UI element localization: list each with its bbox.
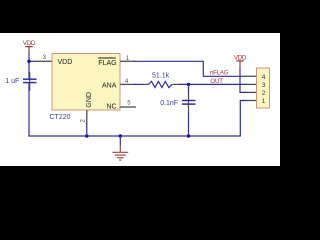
- capacitor C1 1uF plates: [23, 78, 37, 80]
- svg-text:NC: NC: [107, 104, 117, 111]
- resistor R1 leads: [144, 83, 149, 85]
- svg-text:VDD: VDD: [23, 40, 36, 47]
- power symbol VDD right: [236, 61, 243, 69]
- svg-text:5: 5: [127, 101, 131, 107]
- pin 5 stub NC: [120, 106, 136, 108]
- svg-text:4: 4: [262, 74, 266, 81]
- svg-text:3: 3: [43, 55, 47, 61]
- IC U1 body: [52, 54, 120, 111]
- svg-text:1 uF: 1 uF: [5, 78, 19, 85]
- wire junction to IC pin3: [28, 60, 38, 62]
- connector J1 pin stubs: [247, 76, 257, 100]
- svg-text:VDD: VDD: [234, 55, 247, 62]
- wire VDD rail left vertical: [28, 52, 30, 79]
- node junction ground symbol: [119, 134, 122, 137]
- wire pin2 to bus: [86, 123, 88, 136]
- wire bus to connector pin1: [240, 101, 247, 137]
- svg-text:1: 1: [262, 98, 266, 105]
- wire resistor to connector (OUT net): [179, 83, 248, 85]
- pin 4 stub ANA: [120, 83, 136, 85]
- node junction R1/C2: [187, 83, 190, 86]
- capacitor C1 leads gray: [29, 72, 31, 91]
- svg-text:FLAG: FLAG: [98, 60, 116, 67]
- node junction VDD/C1: [27, 60, 30, 63]
- wire FLAG to connector (nFLAG net): [134, 61, 248, 76]
- pin 2 stub GND: [86, 110, 88, 124]
- svg-text:0.1nF: 0.1nF: [160, 100, 178, 107]
- svg-text:51.1k: 51.1k: [152, 73, 170, 80]
- svg-text:GND: GND: [86, 92, 93, 108]
- wire ground bus: [28, 135, 241, 137]
- connector J1 body: [257, 68, 270, 108]
- node junction C2 bottom: [187, 134, 190, 137]
- wire cap bottom to ground bus: [28, 83, 30, 136]
- power symbol VDD left: [25, 47, 32, 53]
- svg-text:OUT: OUT: [210, 78, 223, 85]
- pin 3 stub: [37, 60, 53, 62]
- svg-text:2: 2: [262, 90, 266, 97]
- svg-text:ANA: ANA: [102, 83, 117, 90]
- wire VDD right to connector pin2: [240, 68, 248, 92]
- resistor R1 zigzag: [148, 81, 172, 87]
- wire ANA to resistor: [134, 83, 144, 85]
- capacitor C2 0.1nF drop wire: [188, 84, 190, 93]
- pin 1 stub FLAG: [120, 60, 136, 62]
- svg-text:3: 3: [262, 82, 266, 89]
- capacitor C2 plates: [182, 100, 196, 102]
- ground symbol: [119, 136, 121, 145]
- node junction GND pin2: [85, 134, 88, 137]
- svg-text:nFLAG: nFLAG: [210, 70, 229, 77]
- svg-text:VDD: VDD: [58, 59, 73, 66]
- svg-text:CT220: CT220: [50, 114, 71, 121]
- svg-text:2: 2: [80, 119, 87, 123]
